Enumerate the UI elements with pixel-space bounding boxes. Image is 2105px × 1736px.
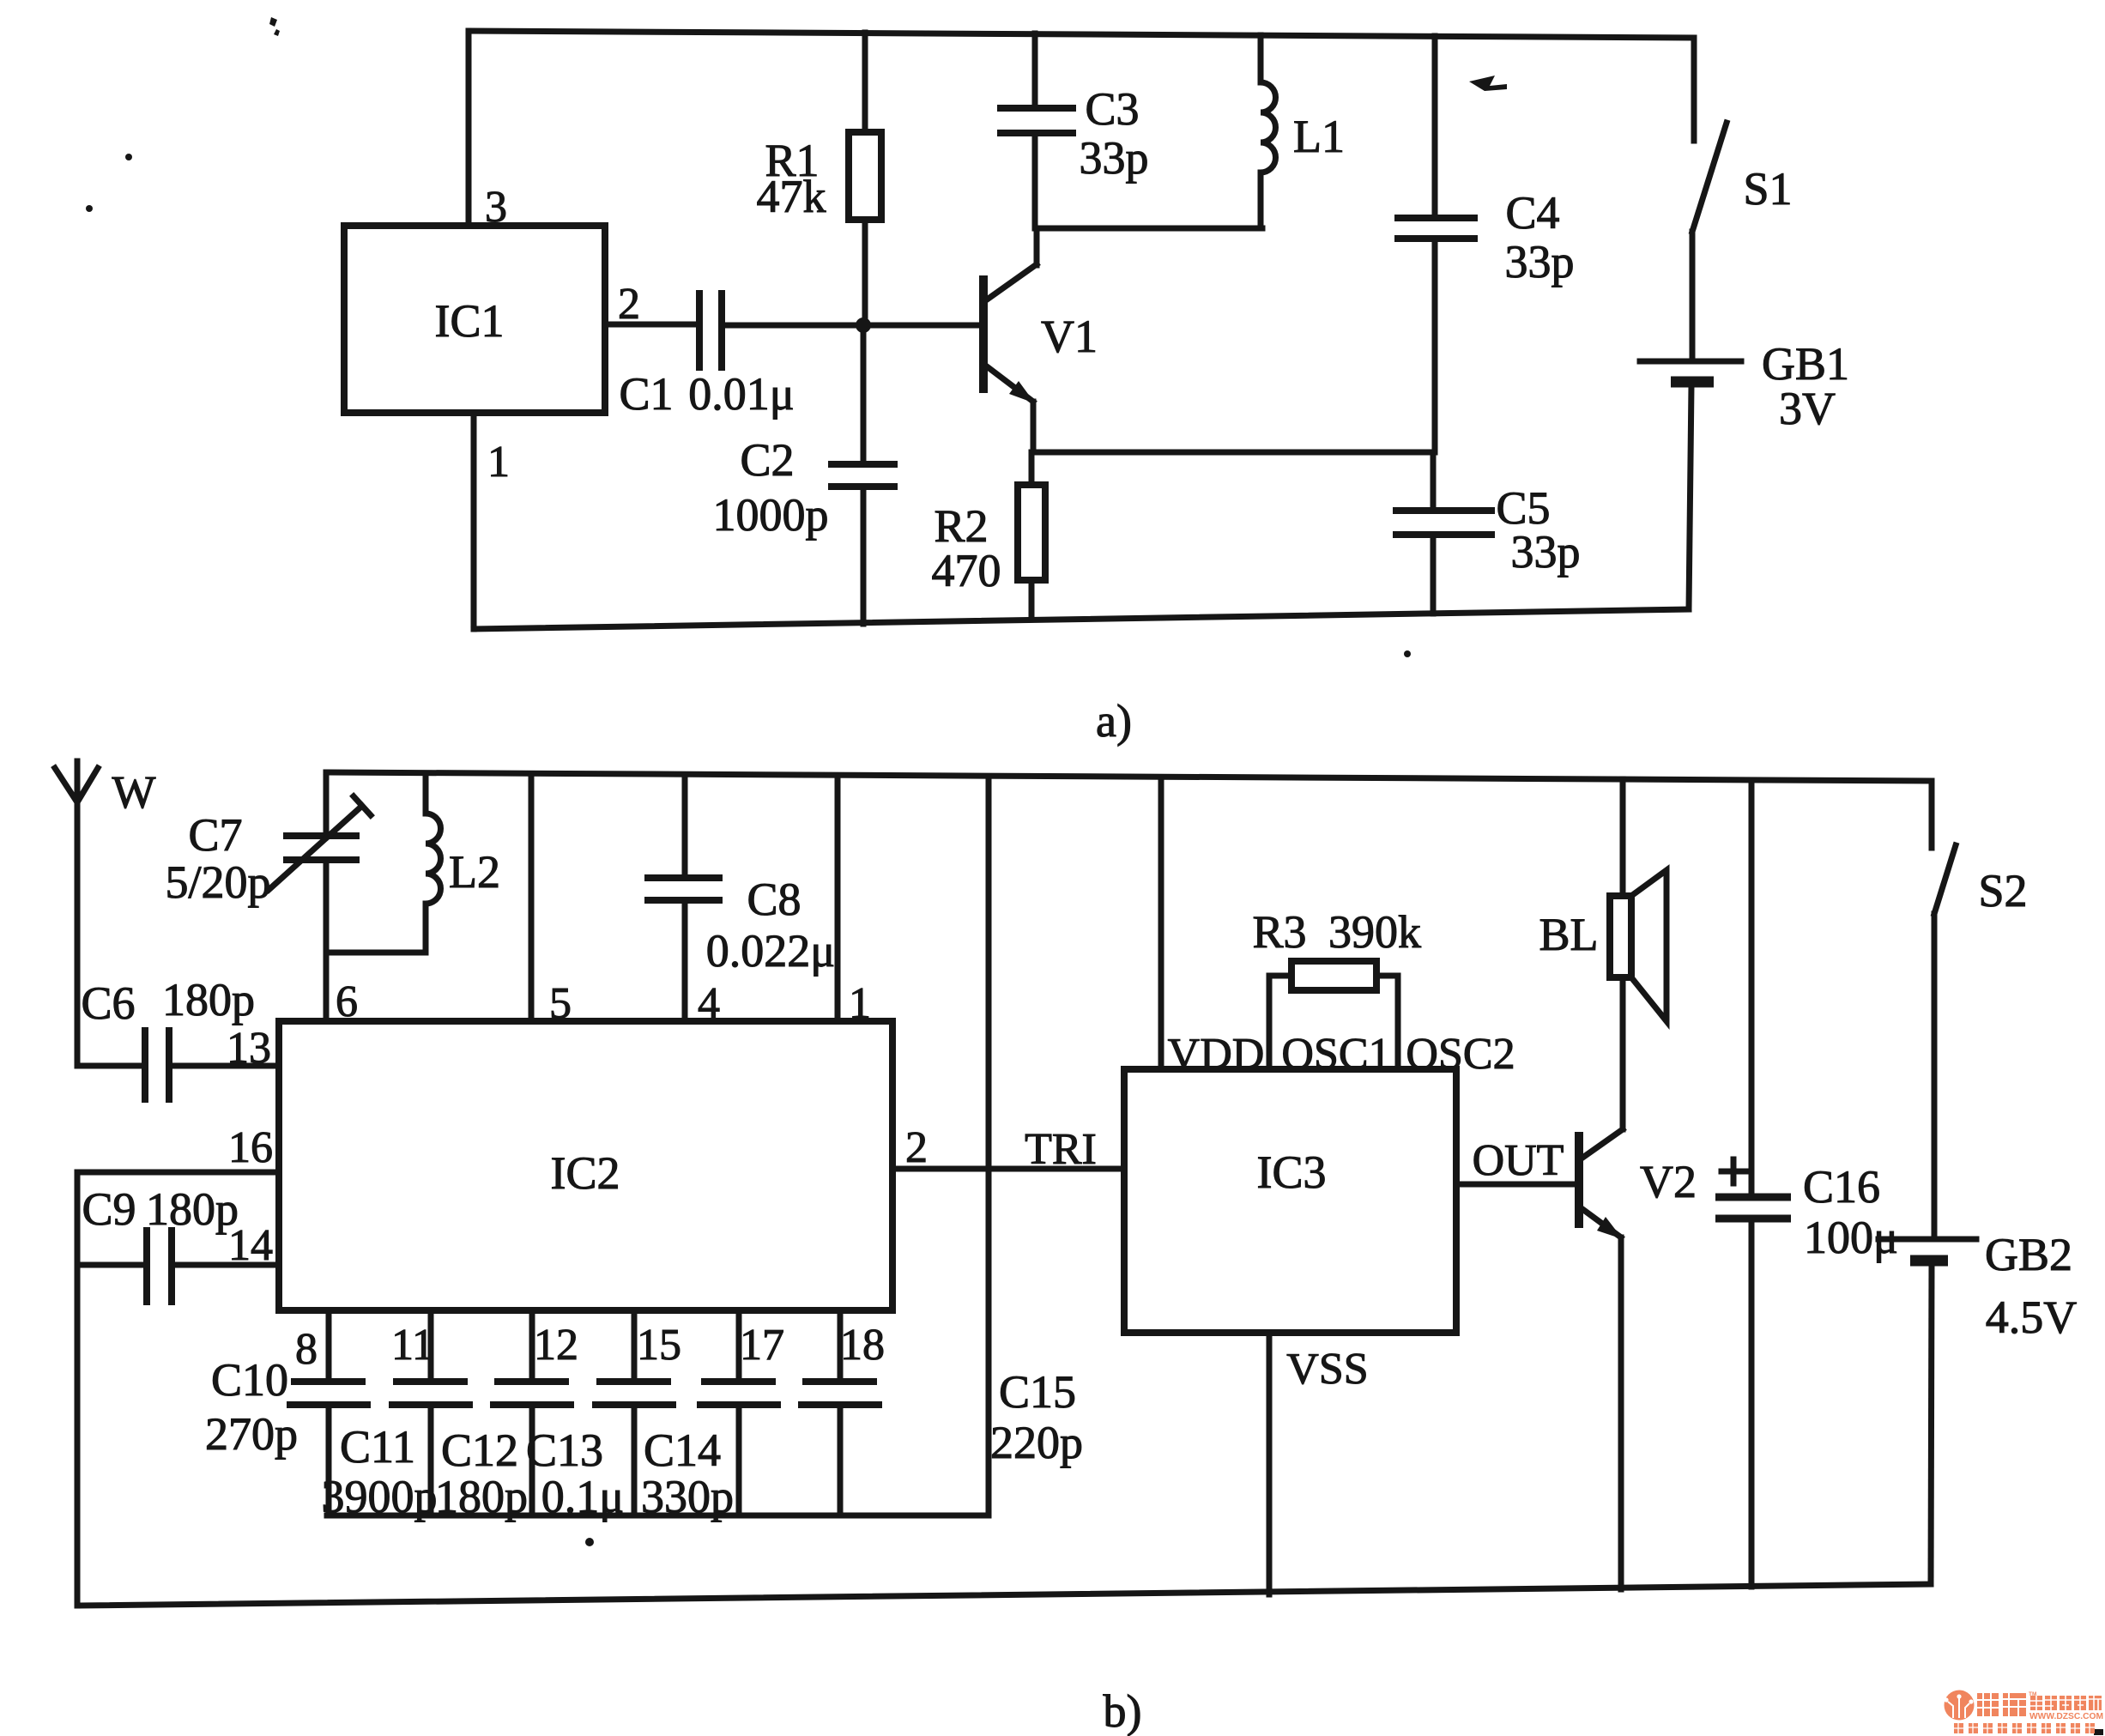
antenna W [55,761,98,1066]
svg-text:1: 1 [487,438,510,487]
capacitor C6 [77,1063,145,1069]
wire pin2 to IC3 [892,1166,1124,1172]
inductor L1 [1258,35,1264,82]
capacitor C2 [861,325,867,464]
svg-text:C15: C15 [999,1366,1076,1418]
svg-text:14: 14 [228,1221,273,1270]
svg-text:C11: C11 [340,1421,415,1473]
svg-text:R2: R2 [934,500,988,552]
capacitor C16 [1749,780,1755,1197]
svg-text:C7: C7 [188,809,242,861]
watermark big characters [1977,1693,2026,1716]
wire OUT [1456,1182,1579,1188]
svg-text:C3: C3 [1085,83,1139,135]
svg-text:18: 18 [840,1321,885,1370]
svg-text:5: 5 [549,979,572,1028]
capacitor C3 [1032,33,1038,108]
svg-text:IC3: IC3 [1257,1146,1327,1198]
svg-text:GB1: GB1 [1762,338,1849,390]
resistor R1 [862,33,868,132]
capacitor C13 [632,1310,638,1382]
svg-text:C8: C8 [747,874,801,925]
svg-text:GB2: GB2 [1985,1229,2072,1280]
wire VDD lead [1158,777,1164,1069]
svg-text:VSS: VSS [1286,1345,1368,1394]
switch S2 [1929,781,1935,848]
svg-text:180p: 180p [162,974,255,1025]
svg-text:1: 1 [849,979,871,1028]
capacitor C14 [736,1310,742,1382]
svg-text:b): b) [1104,1685,1142,1736]
capacitor C9 [77,1262,147,1268]
watermark logo circle [1945,1691,1975,1721]
svg-text:3V: 3V [1779,383,1836,434]
capacitor C5 [1431,452,1437,511]
resistor R2 [1029,452,1035,485]
IC3 box [1124,1069,1456,1333]
wire capacitor bus [327,1513,989,1519]
svg-text:BL: BL [1539,909,1598,960]
capacitor C1 [699,293,722,367]
svg-text:15: 15 [637,1321,681,1370]
svg-text:a): a) [1096,695,1132,747]
capacitor C4 [1432,36,1438,218]
svg-text:WWW.DZSC.COM: WWW.DZSC.COM [2029,1712,2103,1721]
wire C3/L1 link [1035,226,1262,232]
wire left rail [75,1172,81,1606]
svg-text:C12: C12 [441,1424,518,1476]
svg-text:3: 3 [485,183,507,232]
svg-text:270p: 270p [205,1408,298,1460]
transistor V1 [979,275,988,393]
svg-text:13: 13 [227,1024,271,1073]
battery GB1 [1640,359,1741,365]
svg-text:IC2: IC2 [551,1147,620,1199]
svg-text:33p: 33p [1505,236,1575,287]
capacitor C12 [529,1310,535,1382]
capacitor C8 [682,775,688,878]
svg-text:4.5V: 4.5V [1986,1291,2078,1343]
svg-text:470: 470 [932,545,1001,596]
svg-text:330p: 330p [641,1471,734,1522]
svg-text:S2: S2 [1978,865,2027,916]
battery GB2 [1878,1237,1976,1243]
wire top rail b [326,772,1932,781]
svg-text:C6: C6 [81,977,135,1029]
wire IC1 pin3 lead [466,31,472,226]
svg-text:C9: C9 [82,1183,136,1235]
wire pin2 to C1 [605,322,699,328]
IC2 box [279,1021,892,1310]
resistor R3 [1269,976,1291,1069]
svg-text:S1: S1 [1743,163,1792,215]
transistor V2 [1575,1132,1583,1228]
capacitor C15 [838,1310,844,1382]
wire TRI vertical [986,777,992,1515]
svg-text:2: 2 [618,280,640,329]
watermark slogan characters [1954,1723,2095,1733]
IC1 box [344,226,605,413]
svg-text:180p: 180p [435,1471,528,1522]
variable capacitor C7 [324,772,330,836]
stray scan marks [585,1538,594,1546]
svg-text:C13: C13 [526,1424,603,1476]
svg-text:C4: C4 [1505,187,1559,239]
svg-text:33p: 33p [1080,132,1149,184]
svg-text:4: 4 [698,979,720,1028]
svg-text:0.1μ: 0.1μ [541,1471,624,1522]
svg-text:3900p: 3900p [322,1471,438,1522]
svg-text:C14: C14 [644,1424,721,1476]
svg-text:17: 17 [740,1321,784,1370]
svg-text:33p: 33p [1511,526,1581,578]
wire pin1 lead [835,776,841,1021]
svg-text:2: 2 [905,1123,928,1172]
wire pin16 [77,1170,279,1176]
svg-text:L2: L2 [449,846,500,898]
capacitor C11 [428,1310,434,1382]
svg-text:C10: C10 [211,1354,288,1406]
svg-text:6: 6 [336,977,358,1026]
wire IC1 pin1 lead [471,413,477,629]
svg-text:OUT: OUT [1473,1136,1564,1185]
watermark small characters [2030,1696,2102,1710]
svg-text:16: 16 [228,1123,273,1172]
svg-text:C2: C2 [740,434,794,486]
svg-text:1000p: 1000p [713,489,829,541]
svg-text:5/20p: 5/20p [165,856,270,908]
svg-text:OSC1: OSC1 [1281,1030,1390,1079]
svg-text:V2: V2 [1640,1156,1697,1207]
svg-text:L1: L1 [1293,111,1345,162]
svg-text:220p: 220p [990,1417,1083,1468]
svg-text:47k: 47k [757,171,826,222]
svg-text:0.022μ: 0.022μ [706,925,835,977]
wire pin5 lead [529,774,535,1021]
wire bottom rail b [80,1584,1931,1606]
svg-text:TRI: TRI [1025,1125,1097,1174]
wire bottom rail a [474,609,1689,629]
svg-text:12: 12 [534,1321,578,1370]
svg-text:180p: 180p [146,1183,239,1235]
wire VSS lead [1267,1333,1273,1594]
node junction dot [856,318,871,333]
switch S1 [1691,38,1697,141]
wire C1 to base node [722,323,983,329]
svg-text:VDD: VDD [1168,1030,1265,1079]
svg-text:11: 11 [391,1321,434,1370]
svg-text:C1: C1 [619,368,673,420]
speaker BL [1620,779,1626,896]
wire L2 link [326,950,426,956]
svg-text:W: W [112,766,156,818]
svg-text:OSC2: OSC2 [1406,1030,1515,1079]
svg-text:8: 8 [295,1325,318,1374]
svg-text:IC1: IC1 [435,295,505,347]
wire emitter row [1033,450,1433,456]
capacitor C10 [326,1310,332,1382]
svg-text:C16: C16 [1803,1161,1880,1213]
svg-text:0.01μ: 0.01μ [688,368,794,420]
wire top rail a [469,31,1694,38]
svg-text:V1: V1 [1041,311,1098,362]
svg-text:390k: 390k [1328,906,1421,958]
svg-text:R3: R3 [1252,906,1306,958]
inductor L2 [423,774,429,814]
stray scan marks [269,17,280,36]
